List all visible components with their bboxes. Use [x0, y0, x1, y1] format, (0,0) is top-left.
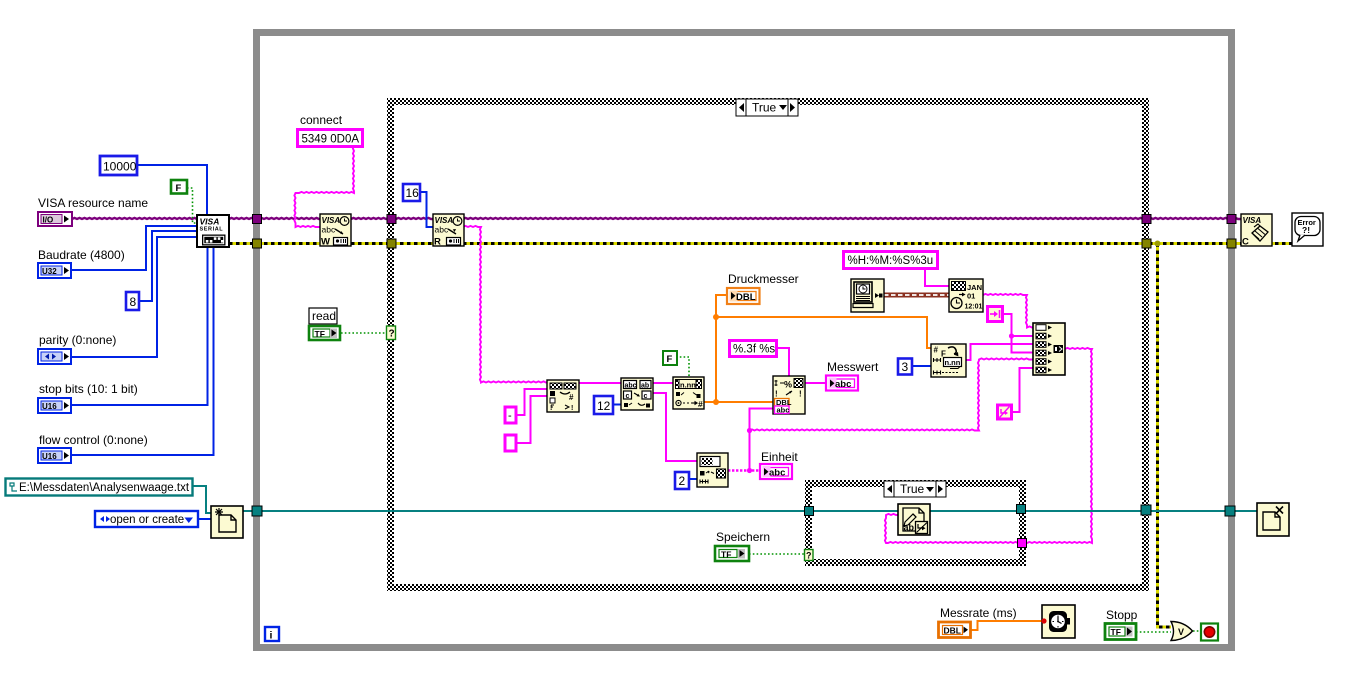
wire: Or gate to loop stop terminal (green dotted) [1193, 630, 1201, 632]
wire: time stamp (brown) get date to format date [884, 293, 949, 298]
svg-text:F: F [667, 354, 673, 365]
svg-text:Stopp: Stopp [1106, 608, 1138, 622]
wire: node2 to node3 (pink) [653, 382, 673, 384]
constant: F (boolean false, top-left) [171, 180, 187, 194]
case selector label True (outer) [736, 99, 798, 116]
constant: connect string 5349 0D0A [298, 130, 363, 147]
svg-text:n.nn: n.nn [945, 358, 961, 367]
wire: 16 byte count to VISA Read (blue) [420, 192, 433, 227]
svg-text:c: c [626, 393, 630, 400]
constant: %H:%M:%S%3u [844, 252, 938, 269]
wire: stop bits (blue) [71, 247, 208, 405]
wire: F constant to node3 (green dotted) [676, 357, 689, 377]
svg-text:E:\Messdaten\Analysenwaage.txt: E:\Messdaten\Analysenwaage.txt [19, 482, 190, 494]
node: decimal string to number (node3) [673, 377, 704, 409]
node: open/create/replace file [211, 506, 243, 538]
node: format date/time string [949, 279, 983, 312]
svg-text:%.3f %s: %.3f %s [733, 344, 775, 356]
indicator: Druckmesser DBL [727, 288, 760, 304]
svg-text:U16: U16 [42, 452, 57, 461]
node: format into string [773, 376, 805, 415]
tunnel: purple on case right [1142, 215, 1151, 224]
terminal: loop iteration i [265, 627, 279, 642]
tunnel: teal on loop left [252, 506, 262, 516]
svg-text:C: C [1242, 237, 1249, 248]
while loop [253, 29, 1235, 651]
wire: data bits 8 (blue) [139, 231, 197, 301]
wire: Einheit branch right to concat row5 (pink) [750, 358, 1034, 430]
svg-text:!: ! [799, 390, 802, 399]
terminal: loop stop condition (red) [1201, 624, 1218, 641]
svg-text:10000: 10000 [103, 160, 137, 174]
svg-text:12: 12 [597, 399, 611, 413]
wire: "-" constant to node1 (pink) [517, 389, 547, 415]
node: simple error handler [1292, 213, 1323, 246]
svg-text:12:01: 12:01 [965, 304, 983, 311]
svg-text:TF: TF [721, 550, 731, 560]
tunnel: error on loop right [1227, 239, 1236, 248]
wire: 10000 timeout (blue) [136, 165, 207, 215]
label+control: Messrate (ms) DBL [939, 606, 1017, 638]
tunnel: pink inner case right [1018, 539, 1027, 548]
node: VISA Close [1241, 214, 1272, 248]
tunnel: error on case left [387, 239, 396, 248]
svg-text:i: i [270, 630, 273, 642]
svg-text:01: 01 [967, 292, 975, 301]
svg-text:%H:%M:%S%3u: %H:%M:%S%3u [848, 255, 934, 267]
wire: F constant to VISA serial (green dotted) [187, 188, 197, 223]
tunnel: inner case selector ? terminal [805, 550, 814, 561]
svg-text:parity (0:none): parity (0:none) [39, 333, 116, 347]
case selector label True (inner) [884, 481, 946, 497]
tunnel: purple on loop right [1227, 215, 1236, 224]
svg-text:n.nn: n.nn [680, 381, 696, 390]
svg-text:abc: abc [777, 406, 790, 415]
constant: file path E:\Messdaten\Analysenwaage.txt [6, 479, 193, 496]
svg-text:F: F [176, 183, 182, 194]
svg-text:stop bits (10: 1 bit): stop bits (10: 1 bit) [39, 382, 138, 396]
svg-text:VISA resource name: VISA resource name [38, 196, 148, 210]
wire: node2 lower out to node4 (pink) [653, 393, 697, 461]
node: write to text file (inner case) [898, 504, 930, 535]
wire: baudrate (blue) [71, 226, 197, 270]
svg-text:Druckmesser: Druckmesser [728, 272, 799, 286]
constant: end-of-line (slashed) [998, 405, 1012, 419]
tunnel: teal on loop right [1225, 506, 1235, 516]
junction: orange dots [713, 399, 719, 405]
wire: node3 number out (orange) to format node DBL [704, 401, 773, 403]
label+control: read TF [309, 308, 340, 340]
svg-text:abc: abc [835, 379, 851, 390]
node: wait (ms) [1041, 605, 1075, 638]
svg-text:?!: ?! [1302, 225, 1310, 235]
svg-text:U32: U32 [42, 267, 57, 276]
wire: Stopp to Or gate (green dotted) [1136, 631, 1171, 633]
constant: tab/EOL arrow [988, 307, 1003, 322]
wire: concat out to inner case tunnel (pink) [1026, 348, 1092, 543]
svg-text:Baudrate (4800): Baudrate (4800) [38, 248, 125, 262]
svg-text:!: ! [550, 405, 552, 412]
control: flow control U16 [38, 448, 71, 463]
control: parity ring [38, 349, 71, 364]
junction: error branch dot [1155, 241, 1161, 247]
node: VISA Read [433, 214, 464, 248]
wire: Einheit branch up to format abc input (pink) [750, 409, 774, 471]
wire: %.3f %s to format node (pink) [777, 348, 789, 376]
svg-text:abc: abc [625, 383, 637, 390]
wire: pink inside inner case to write-file node [885, 514, 1018, 543]
tunnel: error on loop left [253, 239, 262, 248]
svg-text:VISA: VISA [200, 217, 220, 227]
svg-text:abc: abc [435, 225, 449, 235]
svg-text:W: W [321, 237, 330, 248]
wire: orange branch up to Druckmesser and right to #F node [716, 295, 728, 402]
svg-text:Einheit: Einheit [761, 450, 798, 464]
constant: empty string [505, 435, 516, 451]
svg-text:TF: TF [315, 329, 325, 339]
svg-text:c: c [644, 393, 648, 400]
svg-text:SERIAL: SERIAL [200, 227, 224, 233]
svg-text:read: read [312, 309, 336, 323]
svg-text:abc: abc [322, 225, 336, 235]
constant: 3 [898, 359, 912, 375]
wire: node1 to node2 (pink) [579, 382, 621, 384]
svg-text:True: True [752, 101, 777, 115]
wire: error cluster (yellow dashed) main run [229, 242, 1292, 245]
constant: %.3f %s [730, 341, 777, 357]
wire: %H:%M:%S%3u to date format node (pink) [925, 269, 949, 286]
svg-text:%: % [784, 380, 792, 390]
svg-text:U16: U16 [42, 402, 57, 411]
node: spreadsheet string to array (node4) [697, 453, 728, 487]
label+control: Stopp TF [1105, 608, 1138, 640]
indicator: Einheit abc [760, 464, 792, 479]
label+control: Speichern TF [715, 530, 770, 561]
svg-text:DBL: DBL [944, 626, 961, 636]
constant: 10000 [100, 156, 137, 175]
wire: connect string to VISA Write (pink) [294, 146, 354, 227]
wire: VISA resource (purple) main run [72, 218, 1241, 219]
wire: 3 to #F node (blue) [912, 365, 931, 367]
junction: pink dots on Einheit wire [747, 468, 752, 473]
svg-text:open or create: open or create [110, 514, 184, 526]
node: close file [1257, 503, 1289, 536]
constant: open or create ring [95, 511, 198, 527]
wire: Messrate to Wait ms (orange) [971, 621, 1042, 630]
node: number to fractional string (#F) [931, 344, 966, 377]
svg-text:abc: abc [769, 468, 785, 479]
svg-text:V: V [1178, 627, 1184, 637]
wire: file path to open/create (teal) [193, 486, 211, 513]
wire: flow control (blue) [71, 247, 214, 455]
svg-text:Messrate (ms): Messrate (ms) [940, 606, 1017, 620]
wire: format node out to Messwert (pink) [805, 382, 828, 384]
tunnel: case selector ? terminal [387, 326, 396, 340]
svg-text:-: - [508, 410, 512, 422]
svg-text:#: # [934, 346, 939, 355]
svg-text:ab: ab [641, 383, 649, 390]
svg-text:3: 3 [902, 360, 909, 374]
svg-text:True: True [900, 482, 925, 496]
svg-text:connect: connect [300, 113, 343, 127]
svg-text:DBL: DBL [736, 292, 756, 303]
svg-text:TF: TF [1111, 627, 1121, 637]
constant: 16 [403, 184, 420, 201]
svg-text:16: 16 [406, 186, 420, 200]
wire: read TF to case selector ? (green dotted) [341, 332, 387, 334]
svg-text:ab: ab [904, 523, 915, 533]
svg-text:Messwert: Messwert [827, 360, 879, 374]
svg-text:R: R [434, 237, 441, 248]
node: get date/time in seconds [851, 279, 884, 312]
tunnel: teal inner case left [805, 507, 814, 516]
node: string subset (node2) [621, 378, 653, 410]
control: Baudrate U32 [38, 263, 71, 278]
wire: tab constant to concat rows 2 and 4 (pink) [1003, 314, 1033, 353]
coercion dot (red) at Wait input [1041, 618, 1046, 623]
tunnel: error on case right [1142, 239, 1151, 248]
constant: F (boolean, middle) [663, 351, 677, 365]
node: VISA Write [320, 214, 351, 248]
svg-text:!: ! [571, 405, 573, 412]
svg-text:I/O: I/O [43, 216, 54, 225]
wire: date string to concat row1 (pink) [983, 294, 1033, 328]
wire: #F number string to concat row3 (pink) [966, 344, 1033, 360]
wire: error branch down to Or gate [1158, 244, 1172, 628]
control: stop bits U16 [38, 398, 71, 413]
indicator: Messwert abc [826, 376, 858, 391]
wire: file refnum (teal) main run [243, 510, 1257, 512]
tunnel: purple on case left [387, 215, 396, 224]
node: Or gate [1171, 622, 1193, 641]
tunnel: teal inner case right [1017, 505, 1026, 514]
inner case structure (small True case) [805, 480, 1026, 566]
case structure (outer True case) [387, 98, 1149, 591]
wire: read buffer string down to string nodes (pink) [463, 226, 547, 383]
constant: 12 [594, 396, 613, 414]
svg-text:5349 0D0A: 5349 0D0A [302, 134, 360, 146]
tunnel: teal on case right [1141, 505, 1151, 515]
svg-text:8: 8 [130, 295, 137, 309]
constant: 2 [675, 472, 689, 489]
wire: 2 to node4 (blue) [688, 478, 697, 480]
wire: node4 out to Einheit (pink beaded) [728, 469, 760, 472]
wire: empty string constant to node1 (pink) [517, 396, 547, 443]
svg-text:flow control (0:none): flow control (0:none) [39, 433, 148, 447]
node: concatenate strings [1000, 1, 1065, 406]
svg-text:VISA: VISA [1243, 216, 1262, 225]
wire: 12 to node2 (blue) [613, 404, 621, 406]
svg-text:2: 2 [679, 474, 686, 488]
node: VISA Configure Serial Port [197, 215, 229, 247]
node: search and replace string (node1) [547, 380, 579, 412]
svg-text:#: # [569, 393, 574, 402]
svg-text:#: # [698, 399, 703, 409]
svg-text:?: ? [389, 329, 395, 340]
svg-text:Speichern: Speichern [716, 530, 770, 544]
wire: parity (blue) [71, 237, 197, 357]
constant: 8 [126, 292, 139, 310]
wire: open or create ring to icon (blue) [198, 518, 211, 520]
wire: Speichern to inner case selector ? (green dotted) [749, 553, 805, 555]
constant: - (dash string) [505, 407, 516, 423]
control: VISA resource name (I/O) [38, 212, 72, 226]
tunnel: purple on loop left [253, 215, 262, 224]
svg-text:?: ? [806, 551, 812, 561]
wire: EOL slash constant to concat row6 (pink) [1012, 368, 1033, 412]
